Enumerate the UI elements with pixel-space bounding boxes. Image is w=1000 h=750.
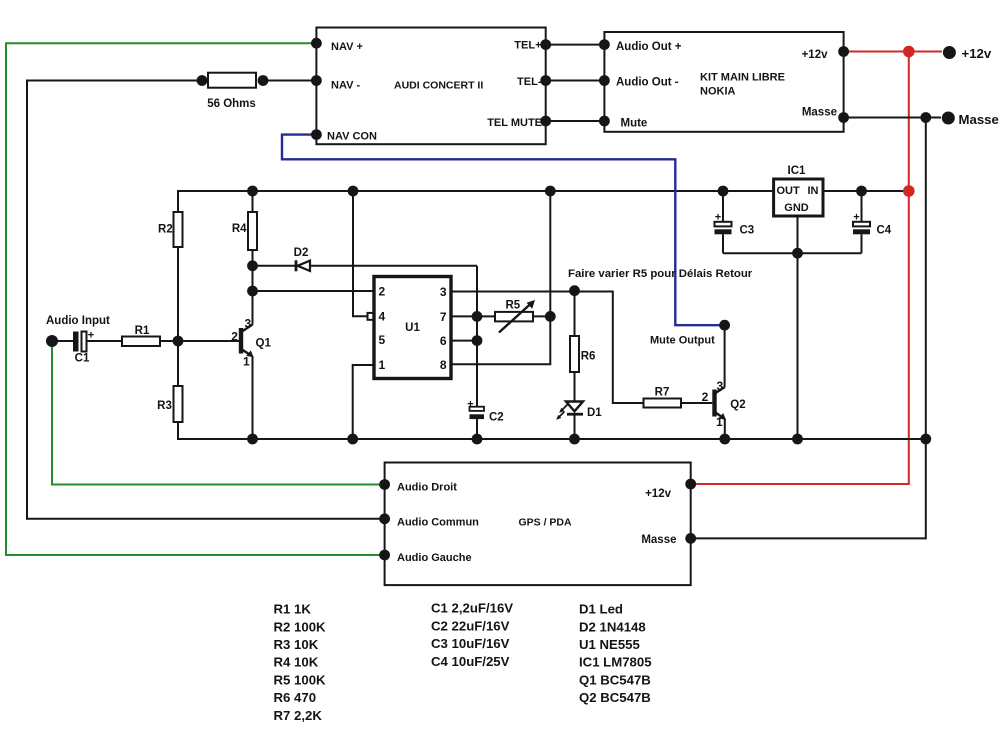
wire GND rail of IC1 [723,252,862,254]
regulator IC1 box [774,179,823,216]
resistor 56 Ohms [208,73,256,88]
node R6 top junction [569,285,580,296]
svg-text:D2: D2 [294,247,309,259]
svg-text:2: 2 [702,390,709,404]
wire blue NAV CON to Mute Output [282,135,725,326]
U1 pin4 stub square [368,313,375,320]
wire U1 pin3 output net [451,292,644,404]
svg-text:C3: C3 [740,225,755,237]
node bus IC1 gnd [792,434,803,445]
box KIT MAIN LIBRE NOKIA [604,32,843,132]
resistor R4 [248,212,257,250]
node GND rail junction [792,248,803,259]
svg-text:Masse: Masse [959,112,999,127]
svg-text:Mute: Mute [621,118,648,130]
wire Q1 collector up [252,191,254,325]
wire IC1 ground down to bus [797,253,799,439]
svg-text:GPS / PDA: GPS / PDA [519,517,573,529]
svg-text:R1 1K: R1 1K [274,602,312,617]
svg-text:D2 1N4148: D2 1N4148 [579,619,646,634]
node Masse junction [920,112,931,123]
svg-text:5: 5 [379,333,386,347]
svg-text:Mute Output: Mute Output [650,335,715,347]
node GPS Audio Droit [379,479,390,490]
svg-text:+: + [467,399,473,411]
node red +12v top bus [903,185,915,197]
node bus D1 [569,434,580,445]
svg-text:R2 100K: R2 100K [274,619,327,634]
node Mute [599,116,610,127]
svg-text:KIT MAIN LIBRE: KIT MAIN LIBRE [700,72,785,84]
svg-text:3: 3 [717,379,724,393]
capacitor C4 [853,191,870,253]
wire green Audio Input to Audio Droit [52,341,385,485]
resistor R1 [122,337,239,347]
wire D2 anode down to pin7 node [476,266,478,317]
svg-text:+12v: +12v [645,488,672,500]
svg-text:IN: IN [808,185,819,197]
capacitor C3 [715,191,732,253]
resistor R6 [570,336,579,403]
capacitor C1 [52,332,122,352]
wire top bus right of IC1 [823,190,909,192]
svg-text:R6 470: R6 470 [274,690,317,705]
wire U1 pin8 to R5 right and top bus [451,191,550,364]
svg-text:AUDI CONCERT II: AUDI CONCERT II [394,80,483,92]
svg-text:R7: R7 [655,387,670,399]
svg-text:C4 10uF/25V: C4 10uF/25V [431,654,510,669]
svg-text:GND: GND [784,202,809,214]
svg-text:8: 8 [440,358,447,372]
LED D1 [556,402,583,440]
node D2 cathode junction [247,260,258,271]
wire 56 Ohms left lead [27,81,385,519]
svg-text:2: 2 [231,330,238,344]
capacitor C2 [470,407,485,439]
node KIT +12v pin [838,46,849,57]
svg-text:Audio Out -: Audio Out - [616,77,679,89]
svg-text:6: 6 [440,334,447,348]
node Audio Out - [599,75,610,86]
transistor Q1 [239,325,254,358]
node R5 right junction [545,311,556,322]
wire bottom ground bus [178,422,926,439]
transistor Q2 [712,387,726,420]
svg-text:R4: R4 [232,223,247,235]
node Q1 collector junction [247,286,258,297]
wire U1 pin2 to Q1 collector [253,290,375,292]
svg-text:Audio Input: Audio Input [46,315,110,327]
wire red +12v vertical to GPS [691,52,909,485]
svg-text:TEL MUTE: TEL MUTE [487,117,542,129]
svg-text:C2: C2 [489,412,504,424]
wire TEL MUTE to Mute [546,120,605,122]
node GPS Audio Gauche [379,550,390,561]
svg-text:C2 22uF/16V: C2 22uF/16V [431,618,510,633]
node top bus R4 [247,186,258,197]
terminal Masse [942,112,955,125]
svg-text:C3 10uF/16V: C3 10uF/16V [431,636,510,651]
svg-text:TEL+: TEL+ [514,40,541,52]
svg-text:R1: R1 [135,325,150,337]
node GPS +12v [685,479,696,490]
node TEL MUTE [540,116,551,127]
svg-text:+12v: +12v [962,46,992,61]
svg-text:OUT: OUT [777,185,801,197]
node 56 Ohms left [197,75,208,86]
svg-text:1: 1 [716,415,723,429]
svg-text:Q2: Q2 [730,399,745,411]
resistor R5 variable [495,300,550,333]
svg-text:56 Ohms: 56 Ohms [207,98,256,110]
node bus C2 [472,434,483,445]
svg-text:R7 2,2K: R7 2,2K [274,708,323,723]
svg-text:Audio Out +: Audio Out + [616,41,682,53]
svg-text:2: 2 [379,285,386,299]
svg-text:Audio Droit: Audio Droit [397,482,457,494]
svg-text:R5 100K: R5 100K [274,672,327,687]
node TEL+ [540,39,551,50]
wire pin7-pin6-C2 vertical [476,316,478,407]
wire Q1 emitter down [252,356,254,439]
svg-text:NOKIA: NOKIA [700,86,736,98]
node bus pin1 [347,434,358,445]
node bus Q2 [719,434,730,445]
wire top bus left of IC1 [178,191,774,210]
node red +12v junction top [903,46,915,58]
svg-text:C1 2,2uF/16V: C1 2,2uF/16V [431,601,513,616]
svg-text:R3: R3 [157,400,172,412]
resistor R3 [174,341,183,422]
node KIT Masse pin [838,112,849,123]
wire U1 pin4 to top bus [353,191,368,316]
wire Masse from KIT to terminal [844,117,941,119]
box AUDI CONCERT II [316,28,545,145]
wire Q2 collector to Mute Output node [724,325,726,387]
svg-text:Q1: Q1 [256,338,272,350]
svg-text:NAV CON: NAV CON [327,131,377,143]
node R1-R2-R3 junction [173,336,184,347]
node NAV CON [311,129,322,140]
svg-text:D1: D1 [587,407,602,419]
svg-text:+: + [853,212,859,224]
node NAV- [311,75,322,86]
node pin7 junction [472,311,483,322]
node Mute Output [719,320,730,331]
svg-text:U1: U1 [405,322,420,334]
node Audio Out + [599,39,610,50]
node bus Masse [920,434,931,445]
svg-text:Q2 BC547B: Q2 BC547B [579,690,651,705]
svg-text:R2: R2 [158,224,173,236]
svg-text:D1 Led: D1 Led [579,602,623,617]
op-amp U1 box NE555 [374,277,451,379]
node top bus C3 [718,186,729,197]
svg-text:TEL-: TEL- [517,76,542,88]
node GPS Masse [685,533,696,544]
node top bus pin8 [545,186,556,197]
node TEL- [540,75,551,86]
terminal +12v [943,46,956,59]
svg-text:Audio Gauche: Audio Gauche [397,552,472,564]
svg-text:Audio Commun: Audio Commun [397,517,479,529]
wire U1 pin7 to R5 [451,315,495,317]
svg-text:1: 1 [243,355,250,369]
svg-text:4: 4 [379,310,386,324]
svg-text:Q1 BC547B: Q1 BC547B [579,672,651,687]
node top bus pin4 [348,186,359,197]
svg-text:IC1: IC1 [788,165,807,177]
wire U1 pin1 to ground bus [353,365,374,439]
wire IC1 GND stub [797,216,799,253]
svg-text:R4 10K: R4 10K [274,655,319,670]
wire U1 pin6 stub [451,340,477,342]
svg-text:Masse: Masse [641,534,676,546]
svg-text:R6: R6 [581,351,596,363]
svg-text:U1 NE555: U1 NE555 [579,637,640,652]
node bus Q1 [247,434,258,445]
svg-text:+: + [715,212,721,224]
node 56 Ohms right [258,75,269,86]
box GPS / PDA [385,463,691,586]
svg-text:3: 3 [440,285,447,299]
node GPS Audio Commun [379,513,390,524]
resistor R2 [174,210,183,341]
wire red +12v from KIT to terminal [844,51,942,53]
node Audio Input [46,335,58,347]
svg-text:3: 3 [244,317,251,331]
svg-text:R5: R5 [505,300,520,312]
svg-text:NAV -: NAV - [331,80,360,92]
wire Q2 emitter down [724,419,726,440]
svg-text:Masse: Masse [802,107,837,119]
wire TEL+ to Audio Out + [546,44,605,46]
node pin6 junction [472,335,483,346]
wire Masse vertical to GPS [691,118,926,539]
node NAV+ [311,38,322,49]
svg-text:C4: C4 [877,225,892,237]
diode D2 [253,260,478,271]
svg-text:Faire varier R5 pour Délais Re: Faire varier R5 pour Délais Retour [568,268,753,280]
svg-text:NAV +: NAV + [331,41,363,53]
resistor R7 [644,399,713,408]
svg-text:R3 10K: R3 10K [274,637,319,652]
svg-text:+12v: +12v [802,49,829,61]
svg-text:IC1 LM7805: IC1 LM7805 [579,655,652,670]
wire green NAV+ net [6,43,385,555]
wire 56 Ohms right lead [263,80,316,82]
svg-text:+: + [88,330,94,342]
wire TEL- to Audio Out - [546,80,605,82]
svg-text:1: 1 [379,358,386,372]
wire R6 branch from pin3 net [574,291,576,336]
svg-text:C1: C1 [75,353,90,365]
node top bus C4 [856,186,867,197]
svg-text:7: 7 [440,310,447,324]
